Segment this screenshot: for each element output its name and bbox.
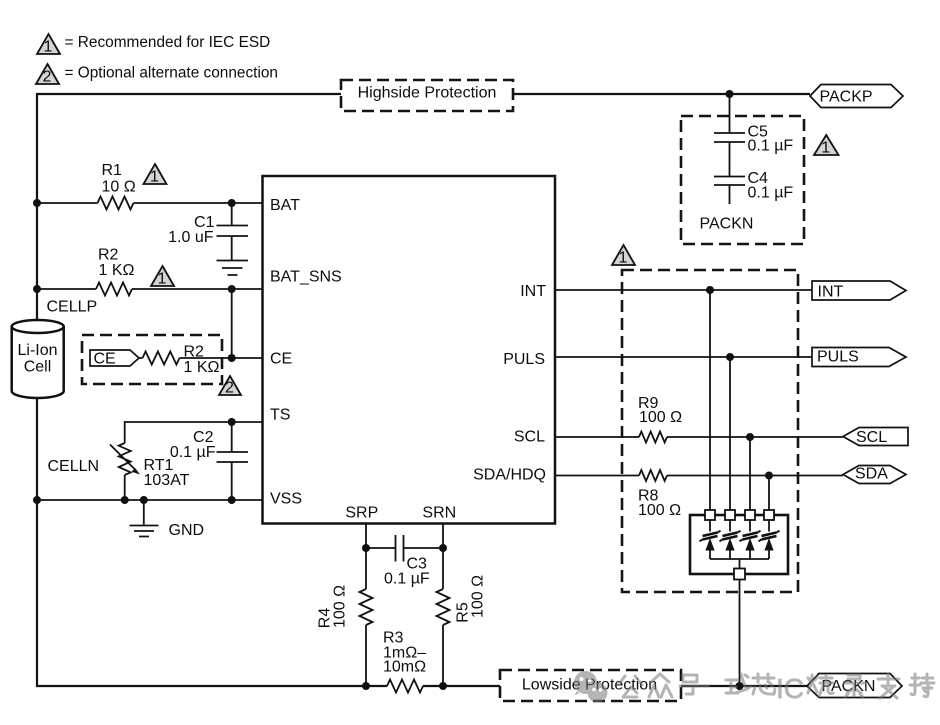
TVS diode D3 — [749, 520, 751, 532]
svg-text:100 Ω: 100 Ω — [638, 502, 681, 519]
node junction 730,357 — [726, 353, 734, 361]
resistor R3 — [387, 680, 423, 693]
node PULS tag — [812, 348, 906, 367]
svg-text:100 Ω: 100 Ω — [639, 409, 682, 426]
node CE tag — [90, 350, 139, 366]
svg-text:R2: R2 — [184, 344, 205, 361]
svg-text:SCL: SCL — [856, 429, 887, 446]
node junction 231.7,203 — [228, 199, 236, 207]
node junction 366,548 — [362, 544, 370, 552]
svg-text:SRP: SRP — [345, 505, 378, 522]
wire BAT_SNS pin — [37, 288, 263, 290]
svg-text:0.1 µF: 0.1 µF — [384, 571, 430, 588]
svg-text:1 KΩ: 1 KΩ — [99, 262, 135, 279]
svg-text:SCL: SCL — [514, 429, 545, 446]
op-amp U1 gauge IC box — [263, 176, 556, 524]
svg-text:VSS: VSS — [270, 491, 302, 508]
wire SDA — [555, 475, 843, 477]
node junction 37,203 — [33, 199, 41, 207]
triangle note 1 at ESD box — [612, 245, 635, 265]
wire ESD INT vertical — [709, 290, 711, 511]
ground under C1 — [217, 261, 249, 276]
ESD array bottom pin square — [734, 569, 745, 580]
TVS diode D1 — [709, 520, 711, 532]
svg-text:SRN: SRN — [422, 505, 456, 522]
ESD array common bus — [710, 559, 769, 569]
node junction 231.7,422 — [228, 418, 236, 426]
node junction 769,475.5 — [765, 472, 773, 480]
resistor R2 alternate (CE) — [143, 352, 180, 365]
svg-text:Cell: Cell — [24, 359, 52, 376]
svg-text:PACKN: PACKN — [700, 216, 754, 233]
node junction 231.7,358 — [228, 354, 236, 362]
capacitor C1 — [231, 203, 233, 260]
triangle note 1 at PACKN box — [814, 135, 839, 155]
svg-text:1: 1 — [44, 39, 53, 56]
node SCL tag — [843, 428, 908, 446]
svg-text:IC: IC — [776, 673, 804, 704]
resistor R4 — [360, 589, 373, 625]
wire PULS — [555, 356, 812, 358]
ESD network dashed box — [622, 270, 798, 592]
resistor R9 — [639, 432, 667, 443]
capacitor C4 — [714, 177, 745, 186]
wire CE pin — [139, 357, 263, 359]
svg-text:SDA: SDA — [855, 466, 888, 483]
wire SRN branch — [442, 523, 444, 686]
node INT tag — [812, 281, 906, 300]
wire CE branch vertical — [231, 289, 233, 358]
capacitor C5 — [729, 94, 731, 177]
ESD array pin square 2 — [725, 510, 735, 520]
svg-text:100 Ω: 100 Ω — [470, 575, 487, 618]
svg-text:= Recommended for IEC ESD: = Recommended for IEC ESD — [65, 34, 271, 51]
wire thermistor branch — [124, 421, 126, 500]
svg-text:CELLP: CELLP — [47, 299, 98, 316]
ESD array pin square 1 — [705, 510, 715, 520]
svg-text:R2: R2 — [98, 247, 119, 264]
triangle note 1 at R2 — [151, 266, 174, 286]
node junction 710,290 — [706, 286, 714, 294]
svg-text:1.0 uF: 1.0 uF — [168, 229, 214, 246]
svg-text:0.1 µF: 0.1 µF — [748, 138, 794, 155]
wire SCL — [555, 436, 843, 438]
svg-text:PACKP: PACKP — [820, 89, 873, 106]
node junction 729.5,94 — [726, 90, 734, 98]
svg-text:BAT_SNS: BAT_SNS — [270, 269, 342, 286]
svg-text:0.1 µF: 0.1 µF — [170, 444, 216, 461]
PACKN caps dashed box — [681, 116, 804, 244]
node PACKP tag — [810, 85, 903, 108]
svg-text:CE: CE — [270, 351, 292, 368]
svg-text:2: 2 — [43, 69, 52, 86]
svg-text:INT: INT — [818, 284, 844, 301]
svg-text:10 Ω: 10 Ω — [102, 179, 136, 196]
Lowside Protection box — [500, 670, 681, 701]
svg-text:2: 2 — [225, 380, 234, 397]
node junction 143.8,500 — [140, 496, 148, 504]
thermistor RT1 — [119, 443, 131, 475]
svg-text:Li-Ion: Li-Ion — [17, 342, 57, 359]
battery Li-Ion cell — [12, 327, 64, 399]
wire left battery bus upper — [36, 93, 38, 321]
wire ESD SCL vertical — [749, 437, 751, 511]
svg-text:TS: TS — [270, 407, 290, 424]
node junction 739.5,686 — [736, 682, 744, 690]
ground GND — [143, 500, 145, 525]
svg-text:PULS: PULS — [817, 349, 859, 366]
node junction 443,548 — [439, 544, 447, 552]
wire INT — [555, 289, 812, 291]
resistor R2 — [96, 283, 132, 296]
node SDA tag — [843, 466, 906, 484]
svg-text:1: 1 — [821, 140, 830, 157]
node PACKN tag — [807, 674, 902, 698]
Highside Protection box — [341, 80, 513, 111]
svg-text:INT: INT — [520, 283, 546, 300]
resistor R1 — [98, 197, 134, 210]
node junction 366,686 — [362, 682, 370, 690]
triangle note 2 at CE box — [219, 376, 241, 395]
wire left battery bus lower — [36, 397, 38, 687]
svg-text:1: 1 — [158, 271, 167, 288]
CE alternate dashed box — [82, 335, 222, 384]
legend triangle 2 — [36, 64, 59, 84]
svg-text:CELLN: CELLN — [48, 458, 100, 475]
node junction 750,437 — [746, 433, 754, 441]
svg-text:R1: R1 — [102, 162, 123, 179]
wire ESD SDA vertical — [768, 476, 770, 511]
wire ESD to PACKN rail — [739, 579, 741, 686]
svg-text:1: 1 — [150, 169, 159, 186]
svg-text:BAT: BAT — [270, 197, 300, 214]
triangle note 1 at R1 — [144, 164, 167, 184]
ESD diode array U2 box — [690, 515, 788, 574]
svg-text:1: 1 — [619, 250, 628, 267]
ESD array pin square 4 — [764, 510, 774, 520]
svg-text:= Optional alternate connectio: = Optional alternate connection — [65, 65, 278, 82]
wire top PACKP rail — [37, 93, 810, 95]
legend triangle 1 — [37, 34, 60, 54]
wire BAT pin — [37, 202, 263, 204]
wire bottom PACKN rail — [36, 685, 807, 687]
node junction 231.7,500 — [228, 496, 236, 504]
node junction 443,686 — [439, 682, 447, 690]
node junction 37,500 — [33, 496, 41, 504]
svg-text:1 KΩ: 1 KΩ — [184, 359, 220, 376]
svg-text:GND: GND — [169, 522, 205, 539]
node junction 231.7,289 — [228, 285, 236, 293]
svg-text:103AT: 103AT — [144, 472, 190, 489]
wire SRP branch — [365, 523, 367, 686]
svg-text:100 Ω: 100 Ω — [332, 585, 349, 628]
wire TS pin — [125, 421, 263, 423]
ESD array pin square 3 — [745, 510, 755, 520]
wire VSS pin — [37, 499, 263, 501]
svg-text:Highside Protection: Highside Protection — [358, 85, 497, 102]
node junction 124.7,500 — [121, 496, 129, 504]
node junction 37,289 — [33, 285, 41, 293]
svg-text:PULS: PULS — [503, 351, 545, 368]
resistor R8 — [639, 470, 667, 481]
svg-text:SDA/HDQ: SDA/HDQ — [473, 467, 546, 484]
capacitor C3 — [366, 547, 443, 549]
watermark wechat logo and text (decorative) — [574, 671, 934, 704]
capacitor C2 — [231, 422, 233, 500]
svg-text:0.1 µF: 0.1 µF — [748, 185, 794, 202]
TVS diode D2 — [729, 520, 731, 532]
resistor R5 — [437, 589, 450, 625]
wire ESD PULS vertical — [729, 357, 731, 511]
svg-text:CE: CE — [94, 351, 116, 368]
TVS diode D4 — [768, 520, 770, 532]
svg-text:10mΩ: 10mΩ — [383, 659, 426, 676]
